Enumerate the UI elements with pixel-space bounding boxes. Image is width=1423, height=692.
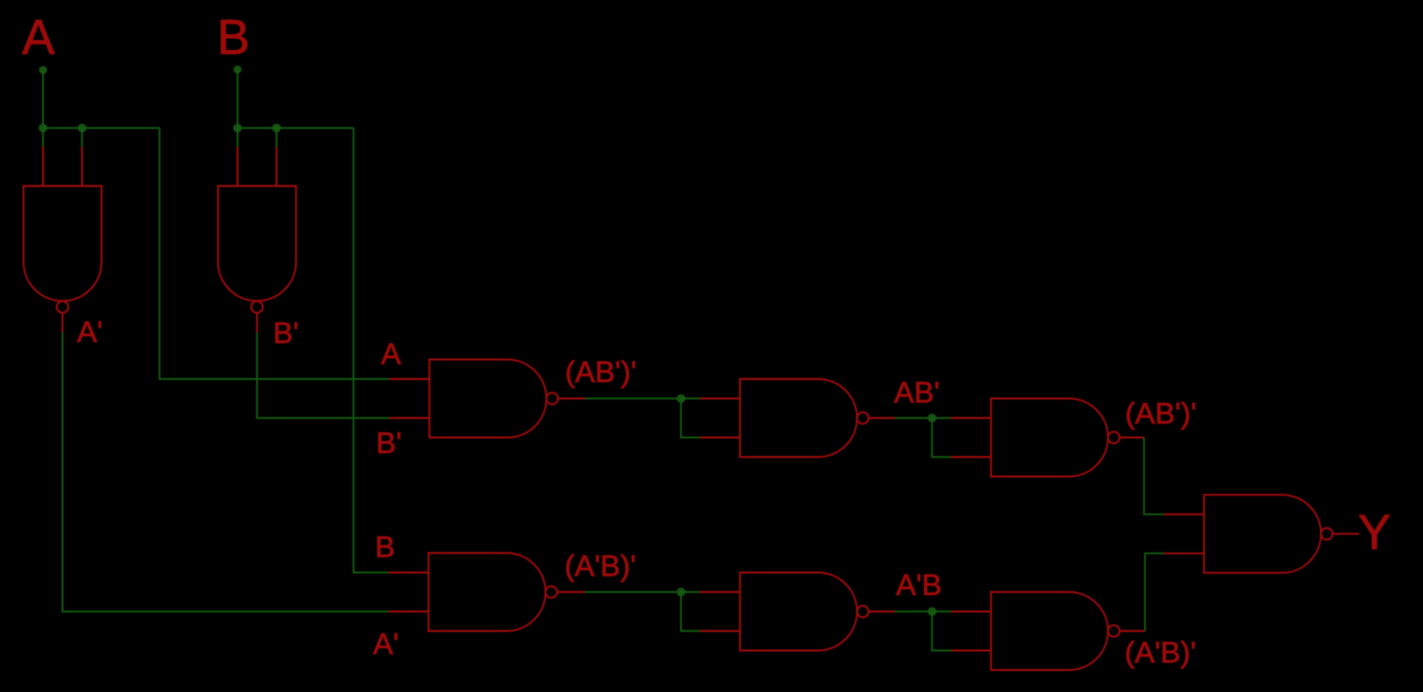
node Y (output label): [1358, 506, 1391, 560]
pin B terminal dot: [234, 66, 242, 74]
node A (input pin label): [22, 11, 55, 65]
label (AB')' at U3 output: [565, 356, 636, 389]
node A junction 1: [39, 124, 48, 133]
wire AB' from U5 to junction: [895, 417, 932, 419]
wire A'B from U6 to junction: [895, 611, 933, 613]
node junction (A'B)': [677, 588, 686, 597]
svg-text:(AB')': (AB')': [565, 356, 636, 389]
label A' at U1 output: [77, 316, 103, 349]
node junction (AB')': [677, 394, 686, 403]
label B' at U2 output: [273, 317, 299, 350]
wire junction to U5 upper input: [681, 398, 700, 400]
wire junction to U7 upper input: [932, 417, 951, 419]
wire junction down to U7 lower input: [932, 418, 951, 457]
svg-text:A: A: [22, 11, 55, 65]
label A' at U4 lower input: [373, 628, 399, 661]
wire A' from U1 to U4 lower input: [63, 333, 389, 612]
wire junction down to U5 lower input: [681, 399, 700, 438]
wire B horizontal bus: [238, 127, 354, 129]
label AB' at U5 output: [894, 377, 940, 410]
svg-text:(A'B)': (A'B)': [565, 550, 636, 583]
label B at U4 upper input: [375, 531, 395, 564]
label A'B at U6 output: [896, 569, 942, 602]
svg-text:B: B: [375, 531, 395, 564]
node A junction 2: [78, 124, 87, 133]
wire (A'B)' from U8 up to U9 lower input: [1145, 553, 1164, 631]
svg-text:(A'B)': (A'B)': [1125, 637, 1196, 670]
wire A down to gate U3: [160, 128, 390, 379]
wire junction to U6 upper input: [681, 591, 700, 593]
NAND U2 (B inverter, vertical): [218, 147, 296, 333]
svg-text:AB': AB': [894, 377, 940, 410]
node B junction 2: [272, 124, 281, 133]
NAND U7 (third stage top): [951, 399, 1144, 477]
svg-text:Y: Y: [1358, 506, 1391, 560]
NAND U1 (A inverter, vertical): [24, 147, 102, 333]
NAND U9 (final output gate): [1164, 495, 1359, 573]
NAND U5 (second stage top): [700, 379, 895, 457]
label B' at U3 lower input: [376, 427, 402, 460]
wire (AB')' from U7 down to U9 upper input: [1144, 438, 1164, 515]
node B (input pin label): [217, 11, 250, 65]
node B junction 1: [233, 124, 242, 133]
wire B vertical from pin B: [237, 70, 239, 129]
svg-text:A': A': [77, 316, 103, 349]
wire A horizontal bus: [43, 127, 160, 129]
label (A'B)' at U8 output: [1125, 637, 1196, 670]
NAND U3 (AB' first stage): [389, 360, 585, 438]
svg-text:A: A: [381, 338, 401, 371]
wire (A'B)' from U4 to junction: [585, 591, 681, 593]
label A at U3 upper input: [381, 338, 401, 371]
svg-text:A': A': [373, 628, 399, 661]
wire junction down to U6 lower input: [681, 592, 700, 631]
wire A junction stubs down to U1 inputs: [43, 128, 82, 147]
NAND U6 (second stage bottom): [700, 573, 895, 651]
svg-text:B': B': [273, 317, 299, 350]
wire B' from U2 to U3 lower input: [257, 333, 389, 419]
svg-text:A'B: A'B: [896, 569, 942, 602]
wire A vertical from pin A: [42, 70, 44, 128]
label (AB')' at U7 output: [1125, 397, 1196, 430]
node junction A'B: [928, 607, 937, 616]
wire B down to gate U4: [354, 128, 389, 573]
label (A'B)' at U4 output: [565, 550, 636, 583]
wire junction to U8 upper input: [932, 611, 951, 613]
wire (AB')' from U3 to junction: [585, 398, 681, 400]
wire B junction stubs down to U2 inputs: [238, 128, 277, 147]
svg-text:(AB')': (AB')': [1125, 397, 1196, 430]
wire junction down to U8 lower input: [932, 612, 951, 651]
node junction AB': [928, 414, 937, 423]
pin A terminal dot: [39, 66, 47, 74]
svg-text:B: B: [217, 11, 250, 65]
NAND U8 (third stage bottom): [951, 592, 1145, 670]
svg-text:B': B': [376, 427, 402, 460]
NAND U4 (A'B first stage): [389, 553, 585, 631]
